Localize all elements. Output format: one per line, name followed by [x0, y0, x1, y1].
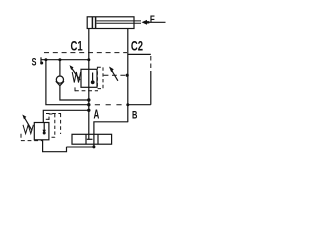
dashed boundary line: [44, 52, 127, 54]
counterbalance valve V2 body: [81, 69, 97, 87]
relief valve V3 body: [34, 123, 49, 140]
DCV port A blocked: [87, 138, 93, 140]
pilot arrow: [110, 68, 118, 81]
wire right loop vertical dashed: [150, 56, 152, 71]
node S/left branch: [44, 58, 47, 61]
wire main line through V2: [88, 70, 90, 111]
node S line at main: [87, 58, 90, 61]
V3 pilot top dash: [46, 118, 49, 120]
wire C1 port line: [88, 29, 90, 70]
port S dot: [40, 62, 43, 65]
svg-text:A: A: [94, 108, 100, 122]
svg-text:B: B: [132, 109, 137, 121]
wire right loop bottom: [128, 104, 151, 106]
wire check valve branch upper: [59, 60, 61, 76]
port S tick: [40, 57, 42, 64]
svg-text:C1: C1: [71, 38, 83, 53]
pilot line to C2: [104, 74, 127, 76]
V3 vent dash horizontal: [46, 113, 61, 115]
wire relief outlet: [43, 140, 67, 152]
V3 poppet ball: [43, 132, 46, 135]
V3 vent dash vertical: [60, 114, 62, 135]
cylinder piston: [91, 17, 93, 28]
node pilot at C2: [126, 74, 129, 77]
V3 adjust arrow: [24, 116, 33, 131]
V2 enclosure dashed corner: [74, 87, 76, 91]
V2 poppet stub: [92, 73, 94, 81]
node right loop bottom: [126, 103, 129, 106]
DCV boxes: [72, 134, 112, 144]
V2 poppet ball: [91, 80, 95, 84]
wire A line to DCV: [88, 110, 90, 139]
V2 adjust arrow: [71, 67, 81, 81]
wire C2 port line: [127, 29, 129, 123]
force arrow F: [142, 20, 148, 25]
svg-text:C2: C2: [131, 39, 143, 54]
node relief branch at main: [87, 109, 90, 112]
svg-text:F: F: [150, 13, 155, 25]
wire left branch: [46, 60, 89, 105]
V2 spring: [72, 72, 80, 83]
node check rejoin: [87, 98, 90, 101]
check valve V1 ball: [56, 76, 63, 83]
V2 pilot dashed box: [97, 67, 103, 88]
node left branch rejoin: [87, 103, 90, 106]
wire S line: [41, 59, 89, 61]
cylinder body: [87, 17, 134, 29]
wire check valve branch lower: [60, 86, 89, 100]
V3 poppet stub: [43, 123, 45, 130]
wire right loop top: [128, 53, 151, 55]
V3 enclosure dashed corner: [20, 134, 22, 141]
V3 pilot dashed box: [49, 114, 55, 137]
check valve V1 seat: [56, 81, 64, 86]
wire tank line: [67, 146, 94, 148]
node S/check branch: [58, 58, 61, 61]
wire right loop vertical solid: [150, 71, 152, 105]
wire B line: [94, 122, 128, 147]
wire A-B pilot dashed: [95, 104, 128, 106]
V3 poppet arrow: [43, 130, 46, 134]
svg-text:S: S: [32, 56, 37, 68]
V3 spring: [23, 125, 33, 134]
node tank at B: [92, 145, 95, 148]
wire relief branch: [43, 110, 89, 122]
cylinder rod: [96, 20, 141, 22]
